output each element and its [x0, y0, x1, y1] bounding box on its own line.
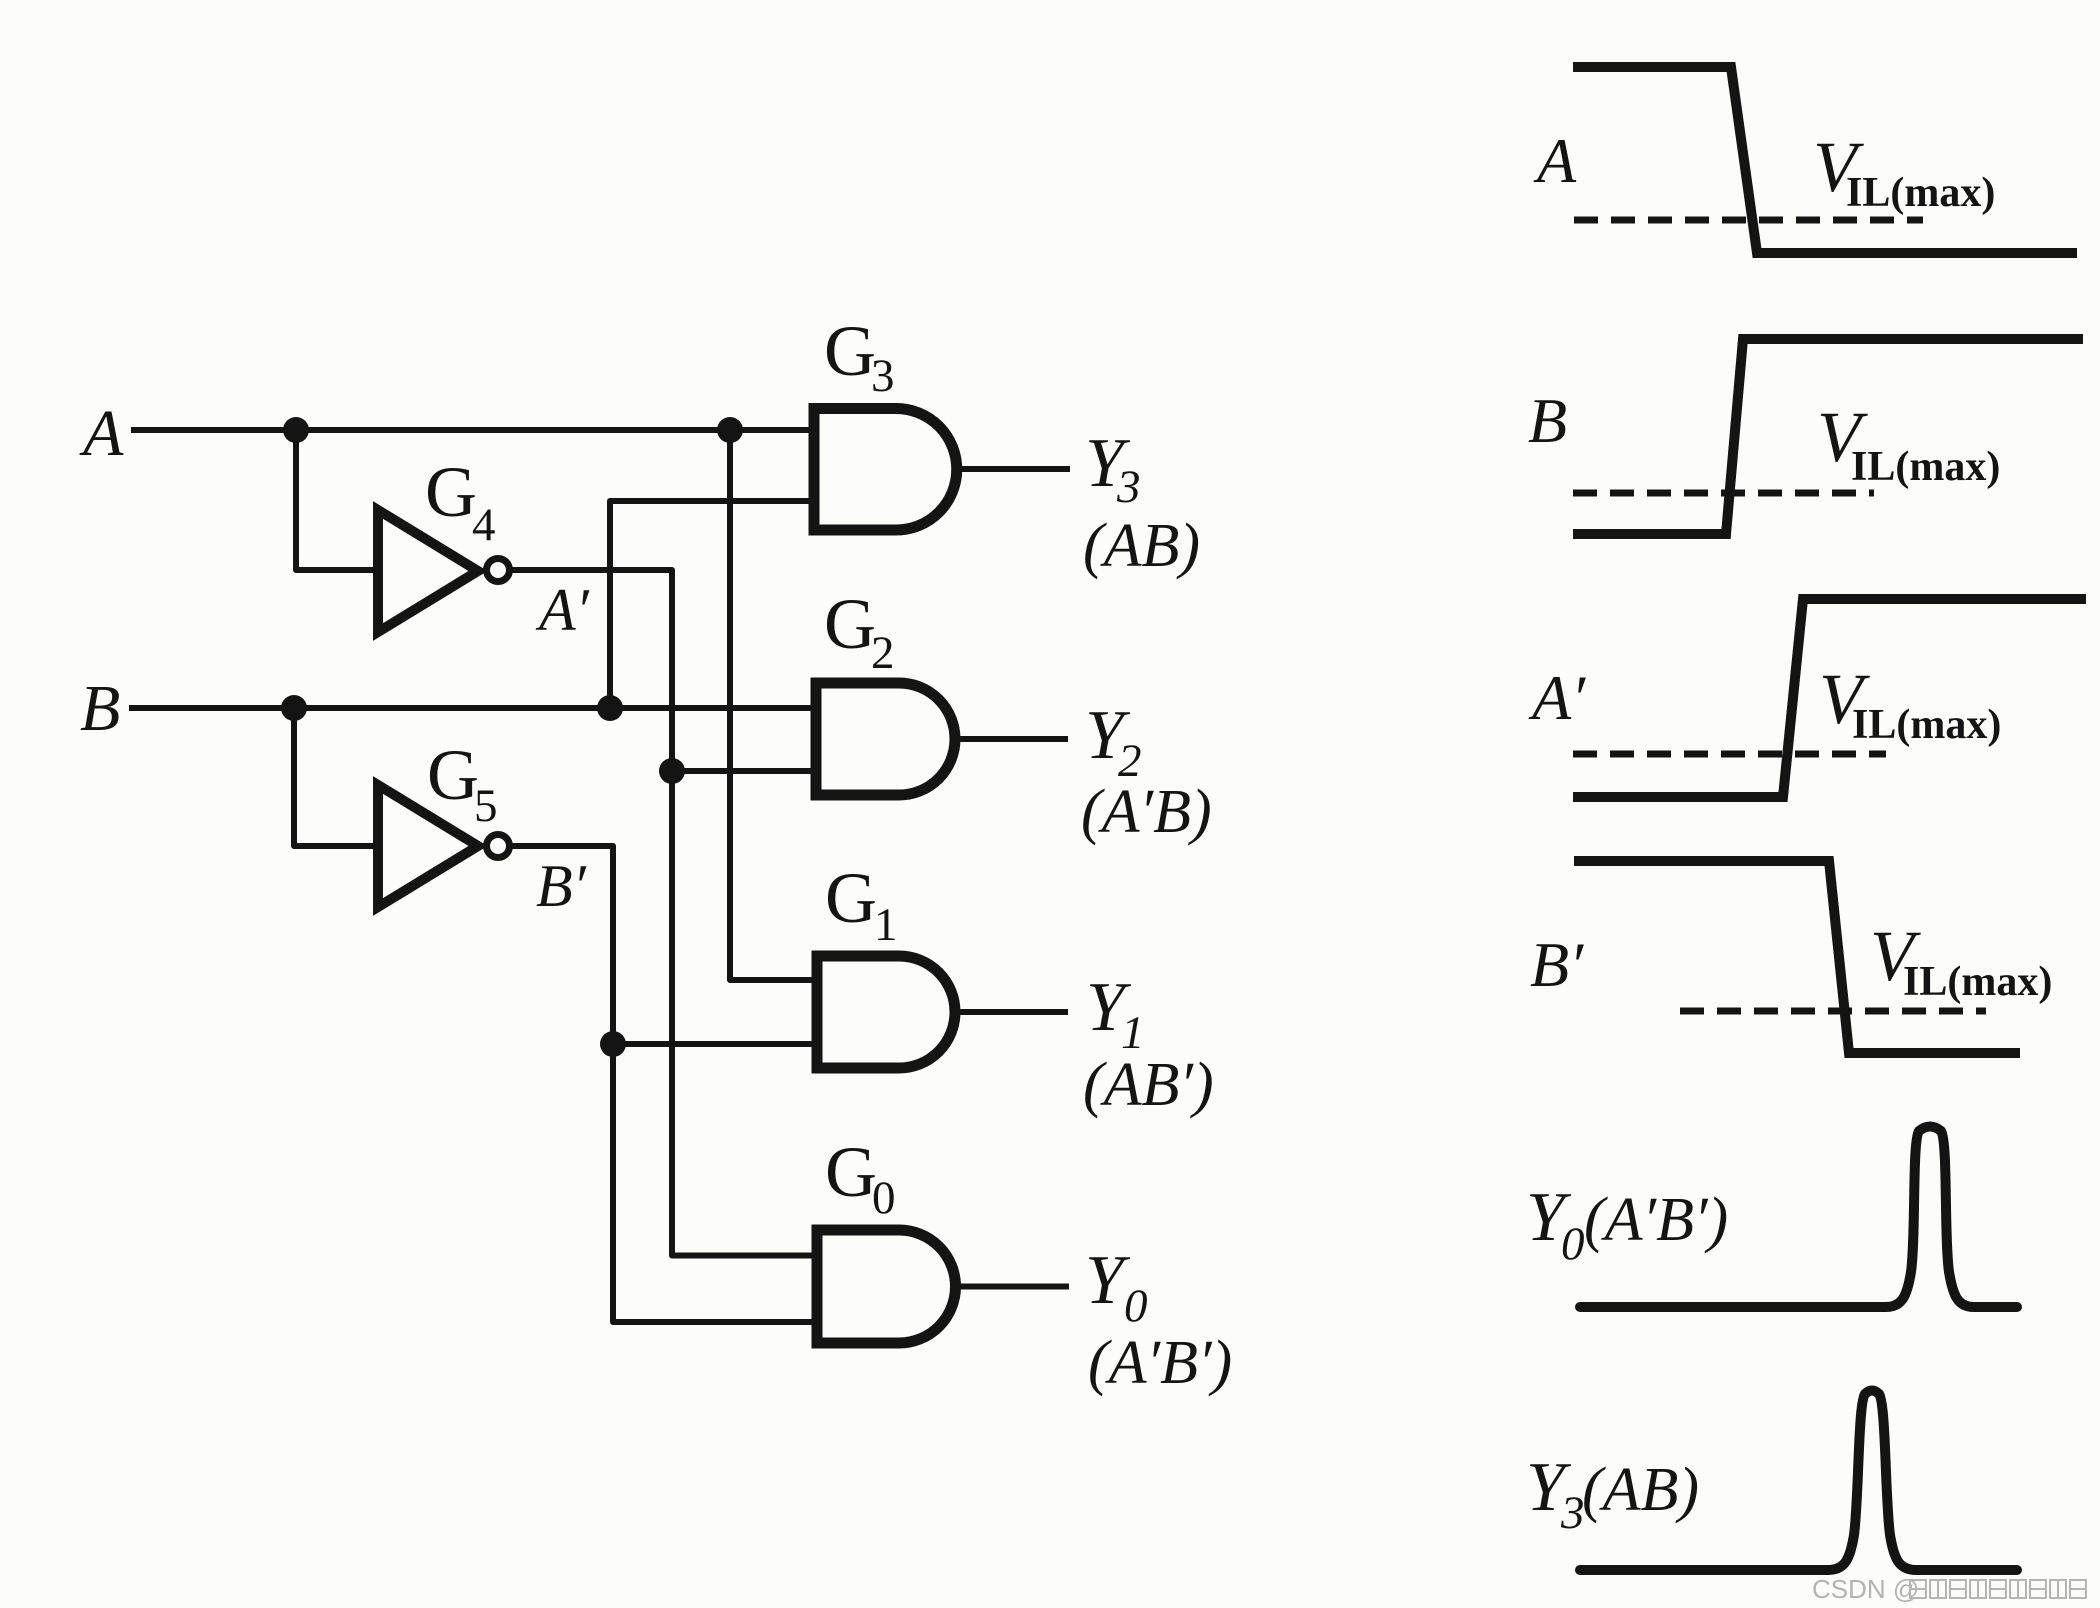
and-gate G2	[816, 683, 955, 795]
svg-text:(A′B): (A′B)	[1081, 778, 1212, 846]
wire B down to G5 input	[294, 708, 378, 846]
svg-text:A: A	[1533, 125, 1577, 196]
junction B to G5	[281, 695, 307, 721]
waveform B trace	[1573, 339, 2083, 534]
wire A riser to G1	[730, 430, 817, 980]
and-gate G3	[814, 408, 957, 530]
svg-text:IL(max): IL(max)	[1851, 444, 2000, 490]
junction A to G1 riser	[717, 417, 743, 443]
svg-text:5: 5	[474, 780, 498, 832]
svg-text:G: G	[824, 584, 876, 664]
wire A' from G4	[509, 570, 817, 1256]
waveform A threshold dashed	[1574, 217, 1923, 224]
wire Y3 output	[956, 466, 1070, 472]
svg-text:2: 2	[871, 627, 895, 679]
svg-text:IL(max): IL(max)	[1852, 702, 2001, 748]
svg-text:B′: B′	[536, 853, 587, 919]
watermark glyph blocks	[1910, 1580, 2086, 1598]
svg-text:IL(max): IL(max)	[1846, 170, 1995, 216]
inverter G5	[378, 785, 478, 907]
junction B to G3 riser	[597, 695, 623, 721]
wire A horizontal	[131, 427, 814, 433]
svg-text:A′: A′	[535, 577, 590, 643]
wire A down to G4 input	[296, 430, 378, 570]
svg-text:0: 0	[1124, 1280, 1148, 1332]
wire B horizontal	[129, 705, 816, 711]
svg-text:A: A	[79, 397, 124, 470]
waveform Y0 glitch trace	[1580, 1127, 2017, 1308]
wire Y2 output	[954, 736, 1068, 742]
waveform A' threshold dashed	[1573, 751, 1886, 758]
svg-text:B′: B′	[1530, 929, 1584, 1000]
svg-text:(AB): (AB)	[1083, 512, 1200, 580]
svg-text:G: G	[425, 452, 477, 532]
svg-text:B: B	[80, 672, 120, 745]
svg-text:(AB′): (AB′)	[1083, 1051, 1214, 1119]
svg-text:1: 1	[874, 899, 898, 951]
waveform B' threshold dashed	[1680, 1008, 1986, 1015]
waveform B threshold dashed	[1573, 490, 1874, 497]
wire B riser to G3	[610, 501, 814, 708]
inverter G4	[378, 510, 478, 632]
waveform B' trace	[1574, 861, 2020, 1053]
svg-text:G: G	[427, 735, 479, 815]
wire A' to G2 input	[672, 768, 816, 774]
and-gate G0	[817, 1230, 956, 1343]
svg-text:(A′B′): (A′B′)	[1584, 1186, 1728, 1254]
bubble G4	[487, 559, 510, 582]
svg-text:G: G	[825, 1132, 877, 1212]
wire B' from G5	[509, 846, 817, 1322]
svg-text:G: G	[824, 311, 876, 391]
svg-text:(AB): (AB)	[1582, 1456, 1699, 1524]
svg-text:G: G	[825, 858, 877, 938]
svg-text:0: 0	[872, 1172, 896, 1224]
junction A to G4	[283, 417, 309, 443]
junction B' to G1	[600, 1031, 626, 1057]
svg-text:(A′B′): (A′B′)	[1088, 1329, 1232, 1397]
junction A' to G2	[659, 758, 685, 784]
waveform A trace	[1573, 67, 2077, 253]
waveform Y3 glitch trace	[1580, 1391, 2017, 1571]
svg-text:4: 4	[472, 499, 496, 551]
svg-text:3: 3	[1116, 461, 1141, 513]
wire B' to G1 input	[613, 1041, 817, 1047]
and-gate G1	[817, 956, 955, 1068]
svg-text:B: B	[1528, 385, 1567, 456]
svg-text:IL(max): IL(max)	[1903, 959, 2052, 1005]
svg-text:3: 3	[871, 350, 895, 402]
svg-text:CSDN @: CSDN @	[1812, 1574, 1919, 1604]
svg-text:A′: A′	[1528, 662, 1586, 733]
svg-text:0: 0	[1561, 1218, 1585, 1270]
bubble G5	[487, 835, 510, 858]
wire Y0 output	[955, 1284, 1069, 1290]
svg-text:3: 3	[1560, 1487, 1585, 1539]
wire Y1 output	[955, 1009, 1068, 1015]
waveform A' trace	[1573, 599, 2086, 797]
